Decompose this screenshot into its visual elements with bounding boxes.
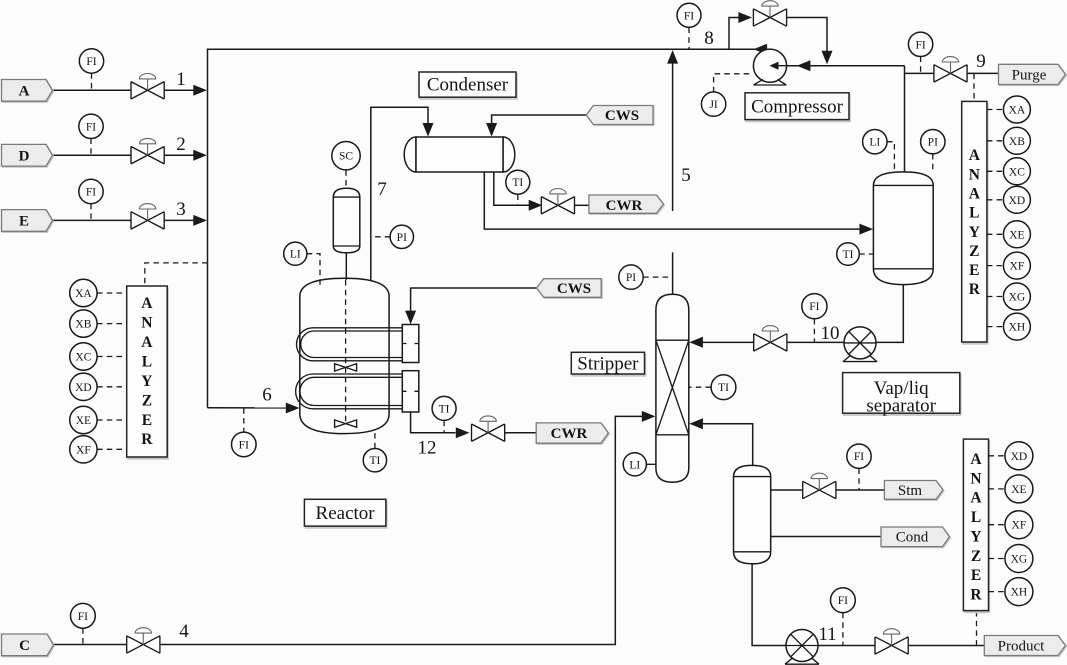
arrow down from bypass to suction — [822, 51, 833, 65]
svg-text:XD: XD — [75, 382, 92, 394]
agitator shaft — [345, 280, 347, 425]
svg-text:XE: XE — [1009, 229, 1024, 241]
TI indicator on stream 12 — [443, 421, 445, 433]
wire: feed E line — [52, 219, 194, 221]
XE indicator (product analyzer) — [989, 488, 1005, 490]
arrow vapour return into stripper — [689, 418, 703, 429]
XC indicator (feed analyzer) — [97, 356, 127, 358]
condenser label box — [419, 72, 516, 97]
wire: reactor CWS line — [411, 288, 537, 312]
svg-text:Z: Z — [971, 548, 981, 565]
svg-text:FI: FI — [915, 39, 925, 51]
svg-text:XC: XC — [75, 352, 91, 364]
FI indicator on stream 6 — [243, 408, 245, 432]
svg-text:A: A — [141, 295, 153, 312]
valve on feed A — [131, 74, 165, 100]
svg-text:E: E — [971, 567, 981, 584]
valve on feed C — [126, 628, 160, 654]
svg-text:12: 12 — [418, 438, 437, 459]
wire: reactor CWR line stream 12 — [411, 412, 456, 433]
svg-text:A: A — [141, 334, 153, 351]
svg-text:XB: XB — [1009, 136, 1025, 148]
wire: dashed sample line from feed header to analyzer — [145, 263, 208, 286]
TI indicator on separator — [859, 253, 873, 255]
wire: purge line — [905, 72, 935, 74]
wire: feed A line — [52, 89, 194, 91]
wire: CWR stub — [575, 204, 590, 206]
svg-text:FI: FI — [239, 439, 249, 451]
XA indicator (purge analyzer) — [987, 109, 1004, 111]
svg-text:FI: FI — [809, 301, 819, 313]
svg-text:Compressor: Compressor — [751, 96, 844, 117]
wire: C feed line 4 to stripper — [53, 416, 642, 644]
FI indicator on feed A — [91, 73, 93, 90]
FI indicator on stream 10 — [813, 319, 815, 342]
purge tag — [999, 64, 1066, 84]
svg-text:XD: XD — [1011, 451, 1028, 463]
arrow stream 10 into stripper — [689, 337, 703, 348]
wire: stream 5 vertical from stripper — [672, 62, 674, 211]
svg-text:N: N — [141, 315, 152, 332]
svg-text:JI: JI — [709, 99, 717, 111]
wire: bypass down leg — [787, 18, 827, 52]
feed tag E — [2, 210, 53, 232]
svg-text:FI: FI — [78, 611, 88, 623]
svg-text:E: E — [142, 412, 152, 429]
XF indicator (purge analyzer) — [987, 265, 1004, 267]
valve on product line — [875, 629, 909, 655]
FI indicator on steam — [858, 469, 860, 490]
svg-text:R: R — [969, 281, 981, 298]
XB indicator (feed analyzer) — [97, 323, 127, 325]
svg-text:A: A — [969, 147, 981, 164]
svg-text:FI: FI — [86, 121, 96, 133]
stripper packing section — [656, 340, 689, 435]
analyzer box (purge) — [962, 101, 987, 342]
wire: compressor bypass line — [729, 18, 745, 50]
arrow up stream 5 into recycle line — [667, 50, 678, 64]
svg-text:A: A — [970, 451, 982, 468]
svg-text:XG: XG — [1011, 554, 1028, 566]
svg-text:CWR: CWR — [551, 426, 588, 442]
FI indicator on recycle stream 8 — [688, 28, 690, 50]
svg-text:CWS: CWS — [557, 281, 591, 297]
XF indicator (feed analyzer) — [97, 448, 127, 450]
svg-text:Y: Y — [969, 224, 980, 241]
wire: feed D line — [52, 154, 194, 156]
wire: steam line — [771, 489, 803, 491]
wire: dashed sample line product to analyzer — [976, 611, 978, 645]
arrow on CWR line — [529, 200, 543, 211]
svg-text:FI: FI — [86, 56, 96, 68]
XD indicator (feed analyzer) — [97, 386, 127, 388]
svg-text:LI: LI — [629, 459, 640, 471]
wire: condensate line — [771, 536, 881, 538]
sample condenser above reactor — [333, 188, 360, 253]
svg-text:Y: Y — [970, 528, 981, 545]
arrow into header from feed D — [193, 150, 207, 161]
svg-text:PI: PI — [626, 272, 636, 284]
pump after separator — [843, 327, 877, 362]
arrow into reactor stream 6 — [286, 403, 300, 414]
wire: steam line stub — [836, 489, 884, 491]
stripper column T1 — [656, 294, 689, 482]
svg-text:E: E — [19, 214, 29, 230]
XE indicator (purge analyzer) — [987, 233, 1004, 235]
TI indicator below reactor — [374, 432, 376, 449]
coil nozzle box lower — [402, 371, 419, 412]
feed tag A — [2, 80, 53, 102]
svg-text:PI: PI — [397, 232, 407, 244]
analyzer box (product) — [963, 439, 988, 610]
svg-text:Z: Z — [142, 392, 152, 409]
svg-text:2: 2 — [176, 134, 186, 155]
svg-text:XD: XD — [1009, 195, 1026, 207]
XB indicator (purge analyzer) — [987, 140, 1004, 142]
feed tag D — [2, 144, 53, 166]
feed tag C — [2, 634, 54, 656]
arrow into header from feed E — [193, 215, 207, 226]
svg-text:Product: Product — [998, 639, 1045, 655]
pump on product line — [785, 630, 819, 665]
svg-text:A: A — [19, 84, 30, 100]
svg-text:FI: FI — [684, 10, 694, 22]
analyzer box (reactor feed) — [127, 286, 168, 457]
wire: condenser outlet down to separator line — [484, 172, 860, 229]
stripper label box — [571, 352, 644, 374]
svg-text:XC: XC — [1009, 166, 1025, 178]
arrow into separator — [859, 224, 873, 235]
svg-text:FI: FI — [838, 595, 848, 607]
svg-text:TI: TI — [512, 177, 523, 189]
wire: separator bottoms to stripper stream 10 — [702, 285, 903, 343]
svg-text:LI: LI — [869, 137, 880, 149]
svg-text:5: 5 — [681, 165, 691, 186]
cooling coil lower — [296, 374, 403, 409]
cooling coil upper — [297, 328, 403, 361]
XG indicator (product analyzer) — [989, 558, 1005, 560]
valve on condenser CWR — [541, 189, 575, 215]
CWR tag (condenser) — [589, 195, 664, 213]
svg-text:C: C — [19, 638, 30, 654]
svg-text:TI: TI — [843, 249, 854, 261]
svg-text:Y: Y — [141, 373, 152, 390]
svg-text:XF: XF — [1010, 261, 1025, 273]
wire: sample condenser to reactor dome — [345, 253, 347, 280]
svg-text:10: 10 — [821, 323, 840, 344]
vap/liq separator label box — [843, 373, 960, 414]
Stm tag — [884, 481, 943, 500]
PI indicator on stripper overhead — [643, 276, 672, 278]
svg-text:Reactor: Reactor — [316, 503, 376, 524]
XC indicator (purge analyzer) — [987, 170, 1004, 172]
svg-text:XE: XE — [76, 415, 91, 427]
svg-text:LI: LI — [290, 249, 301, 261]
svg-text:D: D — [19, 148, 30, 164]
wire: CWR stub (reactor) — [505, 432, 537, 434]
arrow on bypass into valve — [738, 12, 752, 23]
svg-text:E: E — [969, 262, 979, 279]
svg-text:L: L — [142, 354, 152, 371]
reactor vessel R1 — [300, 278, 389, 433]
svg-text:XH: XH — [1009, 322, 1026, 334]
svg-text:Stripper: Stripper — [577, 353, 639, 374]
compressor label box — [745, 93, 849, 120]
XG indicator (purge analyzer) — [987, 296, 1004, 298]
svg-text:XE: XE — [1011, 484, 1026, 496]
svg-text:XG: XG — [1009, 292, 1026, 304]
svg-text:PI: PI — [928, 137, 938, 149]
svg-text:SC: SC — [339, 151, 353, 163]
svg-text:Z: Z — [969, 243, 979, 260]
svg-text:XA: XA — [75, 288, 92, 300]
XH indicator (purge analyzer) — [987, 326, 1004, 328]
XF indicator (product analyzer) — [989, 524, 1005, 526]
wire: product line — [816, 645, 985, 647]
svg-text:TI: TI — [718, 382, 729, 394]
svg-text:Purge: Purge — [1012, 67, 1047, 83]
svg-text:6: 6 — [262, 385, 272, 406]
arrow on stream 12 — [456, 427, 470, 438]
SC indicator — [345, 170, 347, 188]
Cond tag — [881, 527, 950, 547]
svg-text:CWS: CWS — [605, 108, 639, 124]
svg-text:R: R — [970, 587, 982, 604]
svg-text:XF: XF — [1012, 520, 1027, 532]
wire: CWS line to condenser — [492, 115, 587, 125]
svg-text:XB: XB — [75, 319, 91, 331]
svg-text:A: A — [970, 490, 982, 507]
FI indicator on feed D — [90, 139, 92, 156]
condenser E1 — [404, 137, 515, 172]
XE indicator (feed analyzer) — [97, 419, 127, 421]
valve on steam line — [802, 473, 836, 499]
valve on stream 12 — [471, 416, 505, 442]
svg-text:Cond: Cond — [896, 530, 929, 546]
arrow into header from feed A — [193, 85, 207, 96]
LI indicator on reactor — [307, 254, 320, 289]
XD indicator (product analyzer) — [989, 455, 1005, 457]
XD indicator (purge analyzer) — [987, 199, 1004, 201]
FI indicator on purge — [920, 57, 922, 74]
FI indicator on product line — [842, 613, 844, 646]
LI indicator on separator — [887, 142, 894, 170]
svg-text:FI: FI — [854, 451, 864, 463]
svg-text:1: 1 — [176, 69, 186, 90]
CWS tag (condenser) — [586, 106, 653, 125]
arrow down CWS into condenser — [486, 123, 497, 137]
svg-text:3: 3 — [176, 199, 186, 220]
XA indicator (feed analyzer) — [97, 292, 127, 294]
svg-text:L: L — [971, 509, 981, 526]
wire: reboiler bottoms to product pump — [752, 564, 788, 646]
wire: compressor suction line — [772, 65, 905, 67]
svg-text:N: N — [970, 470, 981, 487]
coil nozzle box upper — [402, 325, 419, 363]
JI indicator on compressor — [714, 74, 753, 92]
svg-text:FI: FI — [86, 187, 96, 199]
arrow on suction line — [797, 60, 811, 71]
svg-text:XH: XH — [1011, 587, 1028, 599]
svg-text:8: 8 — [704, 28, 714, 49]
svg-text:11: 11 — [818, 624, 836, 645]
reactor label box — [304, 499, 386, 526]
svg-text:TI: TI — [439, 403, 450, 415]
TI indicator on stripper — [689, 386, 711, 388]
svg-text:N: N — [969, 166, 980, 183]
arrow CWS into coil box — [405, 311, 416, 325]
compressor U1 — [753, 49, 786, 82]
CWR tag (reactor) — [536, 423, 608, 443]
valve on feed E — [131, 204, 165, 230]
agitator impeller upper — [335, 364, 357, 371]
svg-text:Stm: Stm — [898, 483, 923, 499]
svg-text:9: 9 — [976, 51, 986, 72]
wire: reactor feed line 6 — [208, 407, 288, 409]
CWS tag (reactor) — [537, 279, 602, 298]
valve on purge — [934, 57, 968, 83]
reboiler drum vessel — [734, 465, 771, 563]
svg-text:Condenser: Condenser — [427, 75, 509, 96]
vapour liquid separator vessel — [873, 172, 933, 285]
FI indicator on feed E — [90, 204, 92, 221]
wire: reboiler vapour return to stripper — [702, 424, 753, 466]
wire: stream 7 reactor overhead to condenser — [371, 107, 428, 283]
product tag — [984, 636, 1065, 656]
svg-text:XA: XA — [1009, 105, 1026, 117]
arrow left on recycle line at compressor — [754, 44, 768, 55]
PI indicator on separator — [932, 154, 934, 173]
LI indicator on stripper — [646, 463, 656, 465]
PI indicator on stream 7 — [371, 236, 391, 238]
wire: feed header vertical and recycle top line — [208, 49, 771, 408]
svg-text:4: 4 — [179, 621, 189, 642]
XH indicator (product analyzer) — [989, 591, 1005, 593]
svg-text:separator: separator — [866, 396, 936, 417]
wire: dashed sample line purge to analyzer — [973, 74, 975, 101]
svg-text:A: A — [969, 186, 981, 203]
svg-text:R: R — [141, 431, 153, 448]
svg-text:TI: TI — [369, 455, 380, 467]
svg-text:CWR: CWR — [606, 198, 643, 214]
FI indicator on feed C — [82, 628, 84, 644]
svg-text:L: L — [969, 205, 979, 222]
wire: condenser CWR line — [494, 172, 531, 205]
TI indicator on condenser CWR — [517, 195, 519, 206]
valve on feed D — [131, 138, 165, 164]
valve on stream 10 — [753, 326, 787, 352]
arrow stream 4 into stripper — [642, 411, 656, 422]
arrow down into condenser inlet — [423, 123, 434, 137]
svg-text:XF: XF — [76, 444, 91, 456]
valve on compressor bypass — [753, 1, 787, 27]
agitator impeller lower — [335, 420, 357, 427]
svg-text:7: 7 — [377, 179, 387, 200]
wire: separator overhead to suction corner — [904, 66, 906, 172]
